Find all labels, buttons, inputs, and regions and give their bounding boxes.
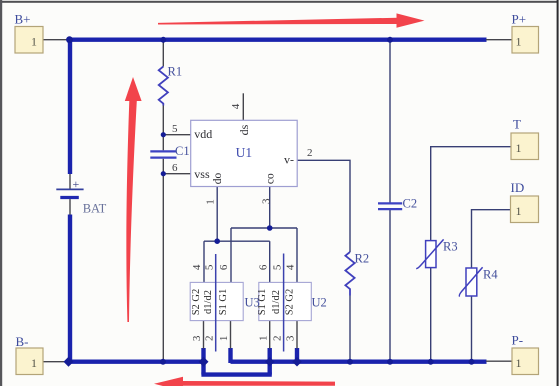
svg-text:B+: B+ (15, 12, 31, 27)
svg-text:6: 6 (172, 162, 178, 174)
svg-text:1: 1 (31, 35, 37, 49)
svg-text:S2 G2: S2 G2 (191, 289, 202, 316)
svg-text:U2: U2 (312, 296, 327, 310)
svg-text:R2: R2 (355, 252, 370, 266)
svg-text:BAT: BAT (83, 202, 107, 216)
svg-text:d1/d2: d1/d2 (271, 290, 282, 314)
svg-text:d1/d2: d1/d2 (203, 290, 214, 314)
svg-text:3: 3 (285, 335, 297, 341)
svg-text:C1: C1 (175, 144, 190, 158)
svg-text:2: 2 (307, 147, 313, 159)
svg-text:1: 1 (31, 356, 37, 370)
svg-text:U1: U1 (236, 145, 253, 160)
svg-text:6: 6 (257, 264, 269, 270)
svg-text:do: do (212, 173, 224, 185)
svg-text:B-: B- (16, 334, 29, 349)
svg-text:1: 1 (516, 141, 522, 155)
svg-text:6: 6 (218, 264, 230, 270)
svg-text:5: 5 (172, 123, 178, 135)
svg-text:1: 1 (516, 204, 522, 218)
svg-text:vdd: vdd (194, 127, 212, 141)
svg-text:S1 G1: S1 G1 (218, 289, 229, 316)
svg-text:4: 4 (285, 264, 297, 270)
svg-text:2: 2 (271, 336, 283, 342)
svg-text:1: 1 (516, 356, 522, 370)
svg-text:5: 5 (203, 264, 215, 270)
svg-text:1: 1 (516, 35, 522, 49)
svg-text:R4: R4 (483, 268, 498, 282)
svg-text:5: 5 (271, 264, 283, 270)
svg-text:vss: vss (194, 167, 210, 181)
svg-text:R3: R3 (443, 240, 458, 254)
svg-text:P+: P+ (512, 12, 527, 27)
svg-text:1: 1 (218, 336, 230, 342)
svg-text:ds: ds (237, 124, 251, 135)
svg-text:1: 1 (257, 336, 269, 342)
svg-text:1: 1 (204, 199, 216, 205)
svg-text:C2: C2 (403, 197, 418, 211)
svg-text:3: 3 (260, 198, 272, 204)
svg-text:S2 G2: S2 G2 (284, 289, 295, 316)
svg-text:T: T (513, 117, 521, 132)
svg-text:ID: ID (511, 180, 525, 195)
svg-text:+: + (73, 177, 80, 191)
svg-text:4: 4 (191, 264, 203, 270)
svg-text:co: co (265, 173, 277, 184)
svg-text:v-: v- (284, 152, 294, 166)
svg-text:S1 G1: S1 G1 (257, 289, 268, 316)
svg-text:3: 3 (191, 335, 203, 341)
svg-text:2: 2 (203, 336, 215, 342)
svg-text:R1: R1 (168, 65, 183, 79)
svg-text:P-: P- (512, 333, 524, 348)
svg-text:4: 4 (230, 103, 242, 109)
